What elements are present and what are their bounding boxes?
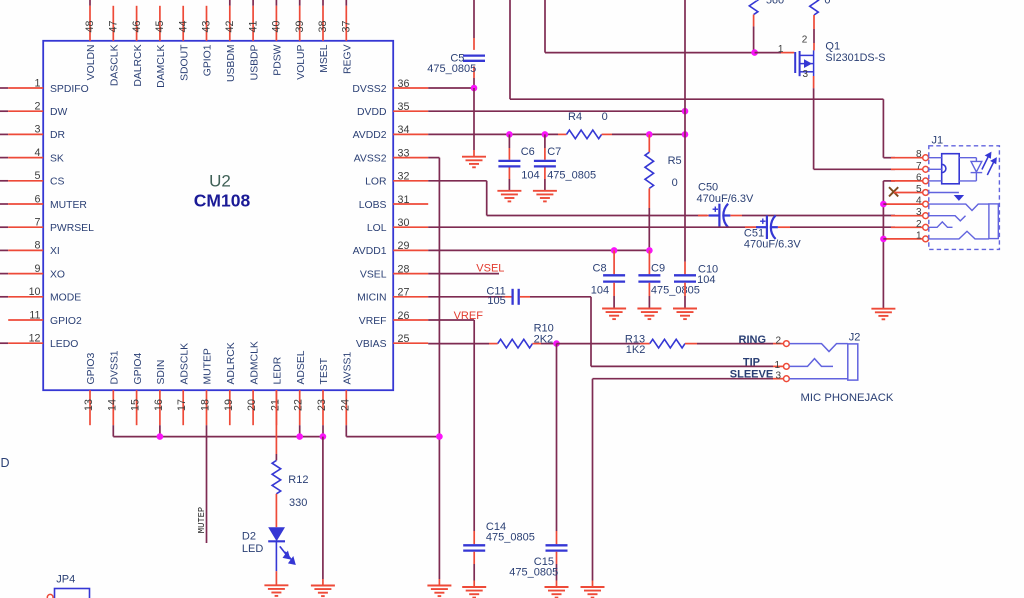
svg-text:AVSS1: AVSS1 <box>343 352 354 385</box>
resistor 0 partial at top <box>810 0 819 15</box>
svg-text:3: 3 <box>802 69 808 80</box>
pin 3 DR <box>0 124 66 142</box>
ground under C14 <box>462 587 486 598</box>
ground under C8 <box>602 309 626 320</box>
resistor R13 1K2 <box>650 339 685 348</box>
svg-text:DVSS1: DVSS1 <box>110 350 121 384</box>
pin 13 GPIO3 <box>83 353 97 426</box>
svg-text:C8: C8 <box>593 263 607 275</box>
wire pin30 LOL to C51 <box>428 226 758 228</box>
pin 2 DW <box>0 101 68 119</box>
pin 22 ADSEL <box>293 350 307 425</box>
connector J2 MIC PHONEJACK <box>774 335 789 381</box>
svg-text:AVDD2: AVDD2 <box>353 130 387 141</box>
svg-text:VOLUP: VOLUP <box>296 44 307 79</box>
net label VSEL <box>428 273 499 275</box>
wire C50 to J1 pin3 <box>730 215 742 217</box>
net label MUTEP wire <box>206 425 208 543</box>
svg-text:J1: J1 <box>932 135 944 147</box>
svg-text:34: 34 <box>398 124 410 136</box>
svg-text:1: 1 <box>916 230 922 241</box>
svg-text:USBDP: USBDP <box>249 44 260 80</box>
svg-text:DVDD: DVDD <box>357 107 386 118</box>
pin 26 VREF <box>359 310 428 327</box>
svg-text:28: 28 <box>398 263 410 275</box>
svg-text:GPIO3: GPIO3 <box>86 353 97 385</box>
svg-text:D2: D2 <box>242 531 256 543</box>
svg-text:475_0805: 475_0805 <box>509 567 558 579</box>
svg-text:37: 37 <box>341 21 353 33</box>
svg-text:10: 10 <box>29 286 41 298</box>
svg-text:TIP: TIP <box>743 357 760 369</box>
transistor Q1 SI2301DS-S <box>795 51 799 76</box>
svg-text:0: 0 <box>824 0 830 6</box>
wire VBUS row to J1 pin8 <box>509 0 511 99</box>
junction R5 top <box>646 131 653 138</box>
wire LOR row to C50 <box>487 215 707 217</box>
DVDD vertical rail to C10 <box>684 0 686 262</box>
svg-text:SPDIFO: SPDIFO <box>50 84 89 95</box>
resistor R4 <box>567 130 602 139</box>
svg-text:475_0805: 475_0805 <box>547 170 596 182</box>
pin 48 VOLDN <box>84 0 97 80</box>
pin 16 SDIN <box>153 360 167 426</box>
svg-text:21: 21 <box>269 399 281 411</box>
svg-text:TEST: TEST <box>319 357 330 384</box>
svg-text:MUTEP: MUTEP <box>203 348 214 384</box>
svg-text:MICIN: MICIN <box>357 293 386 304</box>
wire bus to ground <box>322 437 324 579</box>
capacitor C5 rail <box>473 0 475 38</box>
svg-text:4: 4 <box>916 196 922 207</box>
svg-text:35: 35 <box>398 101 410 113</box>
svg-text:CM108: CM108 <box>194 191 251 211</box>
svg-text:470uF/6.3V: 470uF/6.3V <box>744 239 802 251</box>
pin 19 ADLRCK <box>223 342 237 425</box>
svg-text:0: 0 <box>672 177 678 189</box>
junction pin16/bus <box>157 433 164 440</box>
pin 15 GPIO4 <box>130 353 144 426</box>
wire pin36 DVSS2 to C5 junction <box>428 87 474 89</box>
svg-text:24: 24 <box>339 399 351 411</box>
pin 30 LOL <box>367 217 428 234</box>
capacitor C50 470uF electrolytic <box>709 204 731 228</box>
pin 10 MODE <box>0 286 81 304</box>
pin 42 USBDM <box>224 0 237 82</box>
svg-text:47: 47 <box>108 21 120 33</box>
capacitor C51 470uF electrolytic <box>756 215 778 239</box>
wire pin35 DVDD to DVDD rail <box>428 110 685 112</box>
capacitor C7 <box>544 134 546 148</box>
svg-text:ADMCLK: ADMCLK <box>249 341 260 384</box>
ground under J1 <box>871 309 895 320</box>
svg-text:2: 2 <box>775 335 781 346</box>
ground under C10 <box>673 309 697 320</box>
svg-text:42: 42 <box>224 21 236 33</box>
svg-text:DASCLK: DASCLK <box>110 44 121 86</box>
J2 jack symbol <box>789 344 857 381</box>
pin 9 XO <box>0 263 65 281</box>
junction C8 top <box>611 247 618 254</box>
svg-text:PWRSEL: PWRSEL <box>50 223 94 234</box>
junction J1 pin1 <box>880 236 887 243</box>
svg-text:45: 45 <box>154 21 166 33</box>
svg-text:DW: DW <box>50 107 68 118</box>
junction DVDD rail pin34 <box>682 131 689 138</box>
svg-text:LEDO: LEDO <box>50 339 78 350</box>
svg-text:470uF/6.3V: 470uF/6.3V <box>697 193 755 205</box>
wire C11 to TIP <box>530 296 591 298</box>
pin 38 MSEL <box>317 0 330 73</box>
svg-text:3: 3 <box>35 124 41 136</box>
no-connect X on J1 pin5 <box>889 187 898 196</box>
svg-text:18: 18 <box>200 399 212 411</box>
pin 14 DVSS1 <box>106 350 120 425</box>
LED D2 <box>268 527 285 541</box>
svg-text:23: 23 <box>316 399 328 411</box>
pin 7 PWRSEL <box>0 217 94 235</box>
svg-text:3: 3 <box>775 370 781 381</box>
resistor R5 vertical 0 ohm <box>648 134 650 152</box>
J1 optocoupler body <box>942 154 960 184</box>
svg-text:MODE: MODE <box>50 293 81 304</box>
svg-text:560: 560 <box>766 0 784 7</box>
svg-text:C6: C6 <box>521 146 535 158</box>
pin 23 TEST <box>316 357 330 425</box>
svg-text:VBIAS: VBIAS <box>356 339 387 350</box>
ground under LED <box>264 585 288 596</box>
svg-text:VOLDN: VOLDN <box>86 45 97 81</box>
wire R13 to RING <box>685 343 697 345</box>
pin 45 DAMCLK <box>154 6 167 88</box>
svg-text:6: 6 <box>916 172 922 183</box>
wire pin21 LEDR to R12 <box>275 390 277 454</box>
wire R12 to LED <box>275 494 277 527</box>
ground under C6 <box>497 191 521 202</box>
svg-text:ADLRCK: ADLRCK <box>226 342 237 384</box>
svg-text:DVSS2: DVSS2 <box>352 84 386 95</box>
wire pin34 AVDD2 segment <box>428 133 558 135</box>
svg-text:32: 32 <box>398 171 410 183</box>
J1 LED emission arrows <box>982 153 996 175</box>
capacitor C11 <box>513 289 519 305</box>
pin 33 AVSS2 <box>354 147 428 164</box>
wire pin22 drop <box>299 425 301 436</box>
svg-text:GPIO2: GPIO2 <box>50 316 82 327</box>
svg-text:46: 46 <box>131 21 143 33</box>
pin 37 REGV <box>341 0 354 74</box>
wire J1 pin6 ground rail <box>883 180 895 182</box>
svg-text:RING: RING <box>739 334 767 346</box>
svg-text:43: 43 <box>201 21 213 33</box>
svg-text:8: 8 <box>916 149 922 160</box>
wire LED to ground <box>275 571 277 585</box>
junction C5/pin36/gnd <box>471 85 478 92</box>
svg-text:33: 33 <box>398 147 410 159</box>
pin 34 AVDD2 <box>353 124 429 141</box>
wire junction to R13 <box>557 343 641 345</box>
pin 29 AVDD1 <box>353 240 429 257</box>
svg-text:C7: C7 <box>547 146 561 158</box>
svg-text:ADSEL: ADSEL <box>296 350 307 384</box>
pin 27 MICIN <box>357 287 428 304</box>
svg-text:XO: XO <box>50 269 65 280</box>
svg-text:15: 15 <box>130 399 142 411</box>
svg-text:ADSCLK: ADSCLK <box>179 343 190 385</box>
pin 1 SPDIFO <box>0 77 89 95</box>
svg-text:475_0805: 475_0805 <box>486 532 535 544</box>
wire Q1 pin3 to J1 pin7 <box>813 76 815 88</box>
svg-text:Q1: Q1 <box>825 41 840 53</box>
pin 32 LOR <box>365 171 428 188</box>
svg-text:USBDM: USBDM <box>226 45 237 83</box>
svg-text:1: 1 <box>778 44 784 55</box>
svg-text:38: 38 <box>317 21 329 33</box>
ground AVSS <box>427 586 451 597</box>
svg-text:8: 8 <box>35 240 41 252</box>
svg-text:25: 25 <box>398 333 410 345</box>
svg-text:20: 20 <box>246 399 258 411</box>
pin 6 MUTER <box>0 193 87 211</box>
svg-text:MIC PHONEJACK: MIC PHONEJACK <box>801 392 894 404</box>
svg-text:LED: LED <box>242 543 263 555</box>
svg-text:SDOUT: SDOUT <box>179 44 190 81</box>
pin 12 LEDO <box>0 333 78 351</box>
svg-text:4: 4 <box>35 147 41 159</box>
svg-text:1: 1 <box>35 77 41 89</box>
ground under C9 <box>637 309 661 320</box>
wire DVSS bottom bus <box>112 425 114 436</box>
wire R4 right to DVDD rail <box>602 133 612 135</box>
svg-text:0: 0 <box>602 111 608 123</box>
svg-text:105: 105 <box>487 295 505 307</box>
capacitor C9 <box>648 250 650 274</box>
svg-text:LOR: LOR <box>365 177 387 188</box>
svg-text:SK: SK <box>50 153 64 164</box>
svg-text:SLEEVE: SLEEVE <box>730 368 773 380</box>
wire pin32 LOR right then down <box>428 180 487 182</box>
svg-text:DAMCLK: DAMCLK <box>156 44 167 87</box>
svg-text:40: 40 <box>271 21 283 33</box>
pin 28 VSEL <box>360 263 428 280</box>
svg-text:AVDD1: AVDD1 <box>353 246 387 257</box>
svg-text:VREF: VREF <box>359 316 387 327</box>
svg-text:19: 19 <box>223 399 235 411</box>
svg-text:39: 39 <box>294 21 306 33</box>
svg-text:104: 104 <box>697 274 715 286</box>
svg-text:SDIN: SDIN <box>156 360 167 385</box>
capacitor C8 <box>613 250 615 274</box>
svg-text:12: 12 <box>29 333 41 345</box>
svg-text:2: 2 <box>916 219 922 230</box>
svg-text:VSEL: VSEL <box>476 263 504 275</box>
svg-text:7: 7 <box>35 217 41 229</box>
pin 40 PDSW <box>271 0 284 76</box>
svg-text:R5: R5 <box>668 155 682 167</box>
pin 41 USBDP <box>247 0 260 80</box>
svg-text:MSEL: MSEL <box>319 44 330 73</box>
svg-text:26: 26 <box>398 310 410 322</box>
J1 dashed outline <box>929 146 1000 250</box>
svg-text:JP4: JP4 <box>56 574 75 586</box>
svg-text:30: 30 <box>398 217 410 229</box>
svg-text:17: 17 <box>176 399 188 411</box>
svg-text:41: 41 <box>247 21 259 33</box>
svg-text:475_0805: 475_0805 <box>427 63 476 75</box>
wire pin25 VBIAS to R10 <box>428 343 489 345</box>
J1 jack contacts <box>929 204 999 239</box>
svg-text:XI: XI <box>50 246 60 257</box>
svg-text:475_0805: 475_0805 <box>651 285 700 297</box>
J1 internal wiring + LED <box>929 158 983 181</box>
IC U2 CM108 body <box>43 41 393 390</box>
pin 8 XI <box>0 240 60 258</box>
svg-text:104: 104 <box>591 285 609 297</box>
junction pin22/bus <box>296 433 303 440</box>
svg-text:2: 2 <box>35 101 41 113</box>
svg-text:104: 104 <box>521 170 539 182</box>
wire 0 resistor to Q1 pin2 <box>813 15 815 29</box>
svg-text:36: 36 <box>398 78 410 90</box>
pin 43 GPIO1 <box>201 6 214 76</box>
svg-text:1: 1 <box>774 360 780 371</box>
pin 47 DASCLK <box>108 6 121 86</box>
wire J1 pin4 stub <box>883 203 886 205</box>
resistor 560 partial at top <box>749 0 758 15</box>
pin 46 DALRCK <box>131 6 144 87</box>
svg-text:6: 6 <box>35 193 41 205</box>
svg-text:R4: R4 <box>568 111 582 123</box>
pin 25 VBIAS <box>356 333 428 350</box>
svg-text:PDSW: PDSW <box>273 44 284 75</box>
svg-text:LOL: LOL <box>367 223 387 234</box>
svg-text:MUTER: MUTER <box>50 200 87 211</box>
svg-text:J2: J2 <box>849 332 861 344</box>
svg-text:1K2: 1K2 <box>626 344 646 356</box>
ground under C7 <box>533 191 557 202</box>
svg-text:C50: C50 <box>698 182 718 194</box>
wire J1 pin1 stub <box>883 238 886 240</box>
svg-text:330: 330 <box>289 497 307 509</box>
connector J1 <box>891 149 928 242</box>
svg-text:2: 2 <box>802 35 808 46</box>
svg-text:CS: CS <box>50 177 65 188</box>
wire R10 to junction <box>533 343 542 345</box>
svg-text:11: 11 <box>29 309 40 321</box>
svg-text:D: D <box>1 456 10 470</box>
svg-text:29: 29 <box>398 240 410 252</box>
svg-text:DR: DR <box>50 130 66 141</box>
svg-text:14: 14 <box>106 399 118 411</box>
ground under C15 <box>545 587 569 598</box>
junction J1 pin4 <box>880 201 887 208</box>
wire junction to Q1 gate <box>755 52 781 54</box>
svg-text:13: 13 <box>83 399 95 411</box>
wire 560 resistor to gate junction <box>753 15 755 27</box>
svg-text:DALRCK: DALRCK <box>133 44 144 86</box>
pin 35 DVDD <box>357 101 428 118</box>
pin 5 CS <box>0 170 65 188</box>
pin 24 AVSS1 <box>339 352 353 426</box>
pin 11 GPIO2 <box>8 309 82 327</box>
pin 21 LEDR <box>269 356 283 425</box>
svg-text:GPIO1: GPIO1 <box>203 44 214 76</box>
capacitor C5 <box>463 56 485 61</box>
wire pin16 drop <box>159 425 161 436</box>
svg-text:16: 16 <box>153 399 165 411</box>
svg-text:GPIO4: GPIO4 <box>133 353 144 385</box>
pin 39 VOLUP <box>294 0 307 80</box>
pin 20 ADMCLK <box>246 341 260 425</box>
wire pin27 MICIN to C11 <box>428 296 502 298</box>
svg-text:SI2301DS-S: SI2301DS-S <box>825 52 885 64</box>
svg-text:5: 5 <box>35 170 41 182</box>
wire pin29 AVDD1 row <box>428 249 649 251</box>
pin 36 DVSS2 <box>352 78 428 95</box>
capacitor C6 <box>508 134 510 148</box>
svg-text:MUTEP: MUTEP <box>197 507 207 533</box>
svg-text:31: 31 <box>398 194 410 206</box>
junction C6 top <box>506 131 513 138</box>
capacitor C15 on bias node <box>556 344 558 531</box>
resistor R12 330 <box>272 460 281 493</box>
svg-text:LOBS: LOBS <box>359 200 387 211</box>
svg-text:7: 7 <box>916 161 922 172</box>
svg-text:LEDR: LEDR <box>273 356 284 384</box>
svg-text:R12: R12 <box>288 474 308 486</box>
svg-text:9: 9 <box>35 263 41 275</box>
junction AVSS rail <box>436 433 443 440</box>
SLEEVE wire to ground <box>593 378 774 380</box>
svg-text:AVSS2: AVSS2 <box>354 153 387 164</box>
svg-text:44: 44 <box>177 21 189 33</box>
wire gate net from top <box>544 0 546 53</box>
pin 4 SK <box>0 147 64 165</box>
capacitor C10 <box>674 275 696 281</box>
AVSS vertical rail <box>438 158 440 579</box>
pin 18 MUTEP <box>200 348 214 425</box>
pin 31 LOBS <box>359 194 428 211</box>
svg-text:R10: R10 <box>534 322 554 334</box>
junction DVDD rail pin35 <box>682 108 689 115</box>
svg-text:22: 22 <box>293 399 305 411</box>
junction C7 top <box>542 131 549 138</box>
wire pin33 AVSS2 to AVSS rail <box>428 157 439 159</box>
svg-text:5: 5 <box>916 184 922 195</box>
wire pin23 drop <box>322 425 324 436</box>
ground DVSS bus <box>311 586 335 597</box>
J1 detect arrow pin5 <box>929 192 959 194</box>
svg-text:3: 3 <box>916 207 922 218</box>
svg-text:VSEL: VSEL <box>360 269 387 280</box>
svg-text:27: 27 <box>398 287 410 299</box>
ground under sleeve <box>581 587 605 598</box>
svg-text:U2: U2 <box>209 172 231 191</box>
svg-text:C9: C9 <box>651 263 665 275</box>
ground under C5 <box>462 157 486 168</box>
wire C51 to J1 pin2 <box>778 226 790 228</box>
junction gate node <box>751 49 758 56</box>
pin 17 ADSCLK <box>176 343 190 425</box>
wire junction to ground <box>473 88 475 150</box>
capacitor C14 <box>463 545 485 550</box>
resistor R10 2K2 <box>498 339 533 348</box>
wire pin24 AVSS1 drop <box>345 425 347 436</box>
svg-text:REGV: REGV <box>343 44 354 74</box>
junction C9 top / R5 bottom <box>646 247 653 254</box>
svg-text:48: 48 <box>84 21 96 33</box>
junction pin23/bus/ground <box>320 433 327 440</box>
